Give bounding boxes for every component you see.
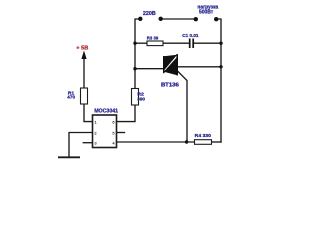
node: 220V terminal left	[138, 17, 142, 21]
triac VS1 BT136	[164, 54, 177, 75]
svg-text:R4 330: R4 330	[195, 133, 211, 139]
wire triac MT2 right	[177, 66, 221, 68]
resistor R4	[195, 140, 212, 145]
wire top-left corner to 220V terminal	[135, 19, 140, 43]
wire load right terminal to right vertical top	[217, 19, 222, 43]
wire pin3 stub	[83, 142, 92, 144]
wire pin5 stub	[117, 132, 125, 134]
+5V power arrow	[81, 51, 86, 60]
op-amp U1 MOC3041 optocoupler body	[93, 115, 117, 148]
svg-text:C1 0.01: C1 0.01	[182, 33, 199, 38]
wire R1 top to +5V arrow	[83, 56, 85, 88]
node junction triac MT1	[133, 67, 136, 70]
node: load terminal right	[214, 17, 218, 21]
wire C1 to right vertical	[194, 42, 222, 44]
wire R4 right to corner	[212, 141, 222, 143]
wire triac MT1 left	[135, 68, 164, 70]
svg-text:MOC3041: MOC3041	[94, 108, 119, 114]
svg-text:+ 5В: + 5В	[76, 45, 88, 51]
wire 220V right terminal to load left terminal	[161, 18, 196, 20]
wire pin4 to R4	[117, 141, 195, 143]
resistor R2	[132, 89, 139, 106]
node junction gate / R4	[185, 140, 188, 143]
svg-text:470: 470	[67, 94, 75, 100]
ground	[58, 156, 80, 158]
svg-text:500Вт: 500Вт	[199, 10, 214, 16]
node junction triac MT2	[219, 65, 222, 68]
wire snubber row left (to R3)	[135, 42, 147, 44]
node: load terminal left	[194, 17, 198, 21]
wire pin2 to ground	[69, 133, 93, 158]
wire left vertical middle segment	[134, 43, 136, 89]
wire R1 bottom to pin1	[84, 104, 93, 122]
node: 220V terminal right	[159, 17, 163, 21]
capacitor C1	[189, 39, 191, 49]
node junction left snubber	[133, 42, 136, 45]
svg-text:390: 390	[137, 97, 145, 103]
svg-text:R3 39: R3 39	[147, 36, 159, 42]
wire R2 bottom to pin6	[117, 105, 136, 122]
wire triac gate diagonal and vertical	[178, 72, 187, 143]
wire right vertical middle	[220, 43, 222, 142]
svg-text:R2: R2	[137, 91, 144, 97]
resistor R3	[147, 41, 163, 46]
node junction right snubber	[219, 42, 222, 45]
svg-text:ВТ136: ВТ136	[161, 82, 179, 88]
resistor R1	[81, 88, 88, 104]
svg-text:220В: 220В	[143, 11, 156, 17]
wire R3 to C1	[163, 42, 189, 44]
